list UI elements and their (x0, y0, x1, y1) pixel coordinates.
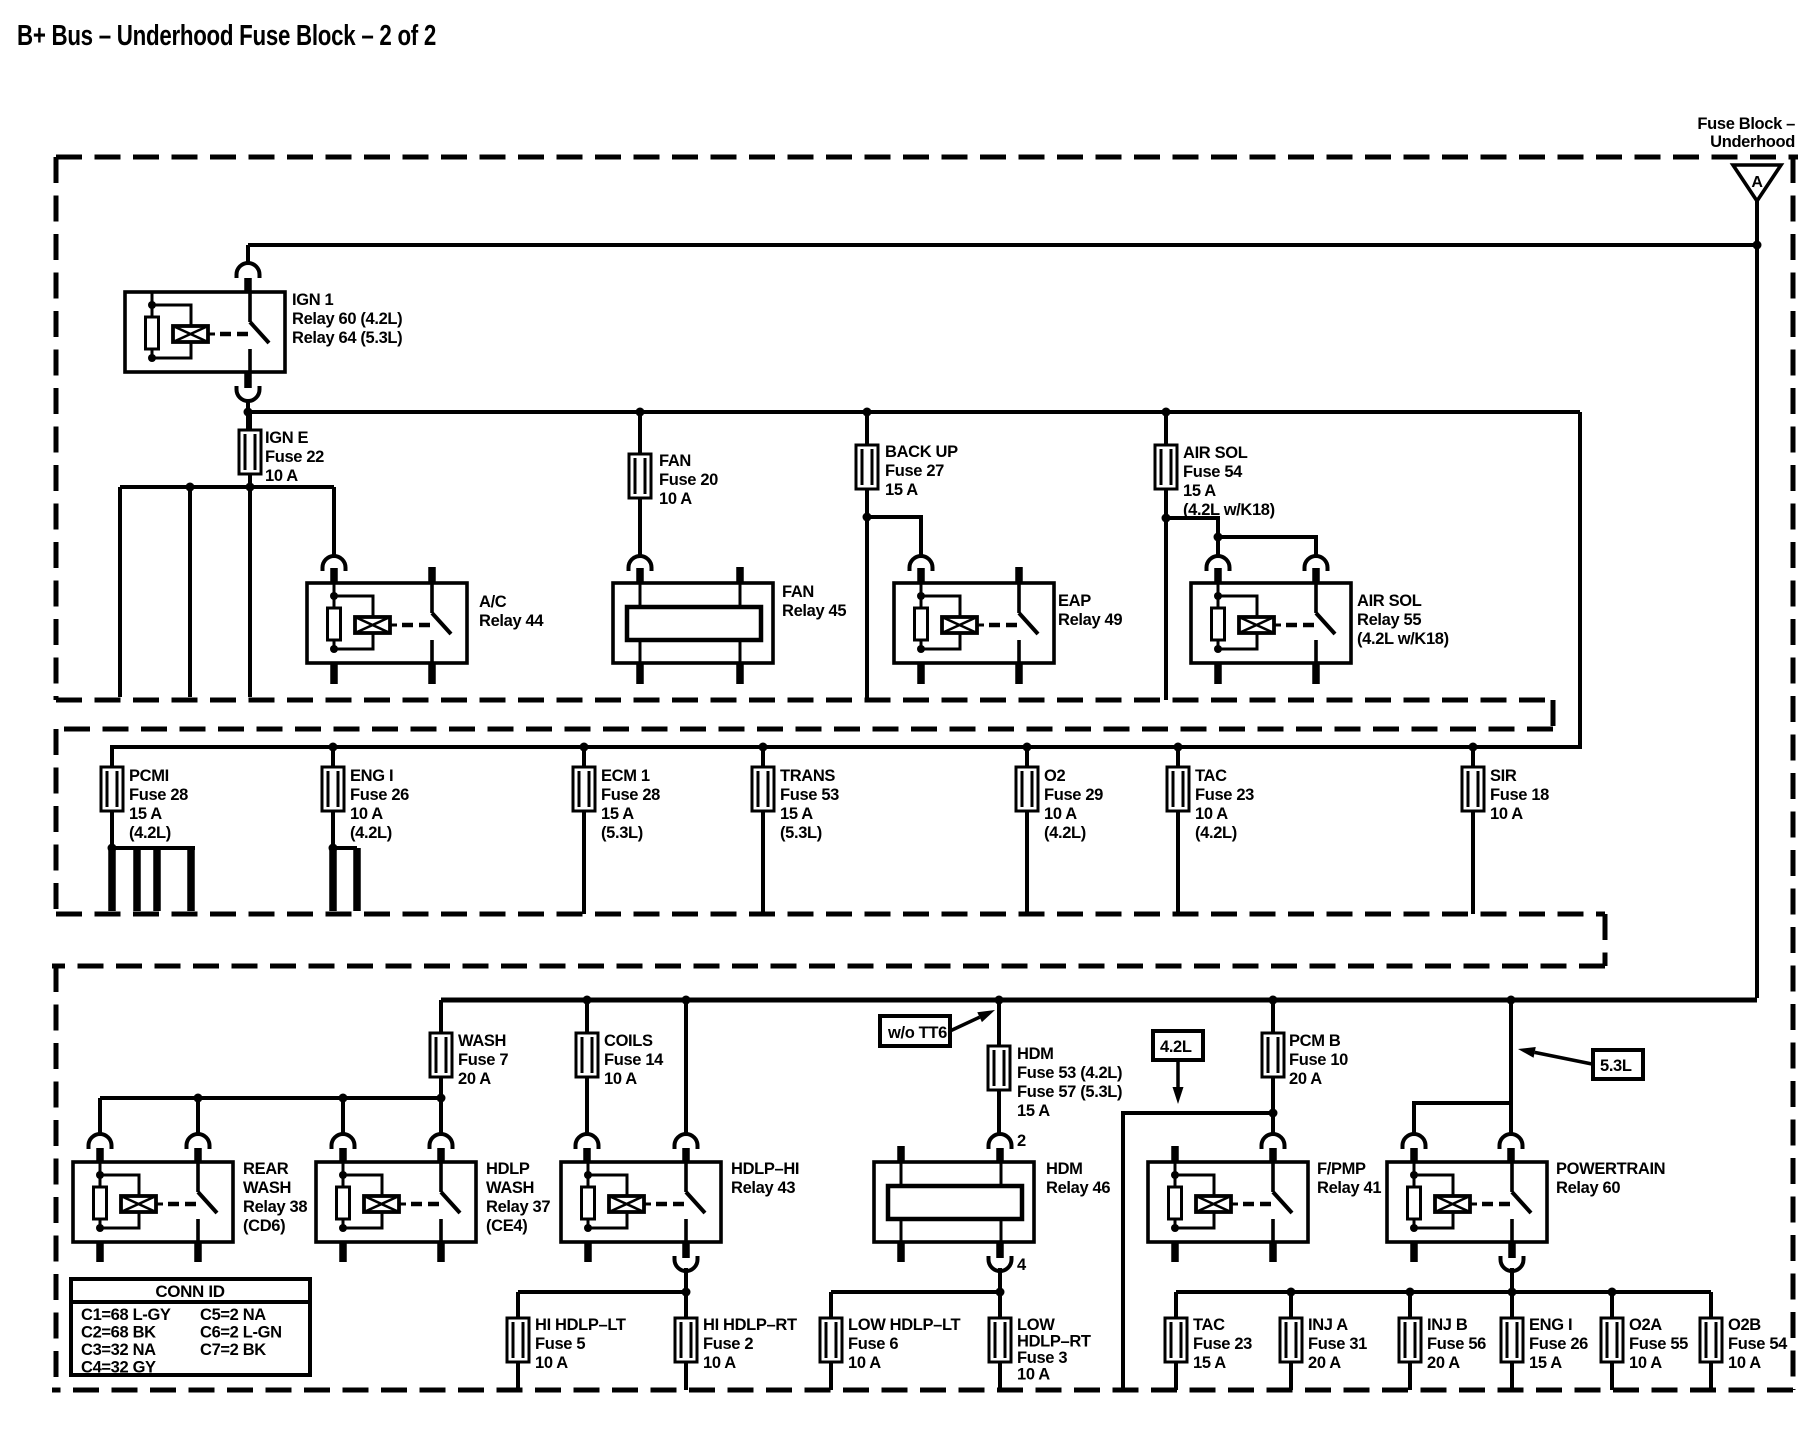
svg-text:C7=2 BK: C7=2 BK (200, 1341, 266, 1359)
svg-text:WASH: WASH (458, 1032, 506, 1050)
svg-text:HDM: HDM (1017, 1045, 1054, 1063)
svg-text:AIR SOL: AIR SOL (1357, 592, 1422, 610)
svg-text:20 A: 20 A (1427, 1354, 1460, 1372)
svg-text:FAN: FAN (782, 583, 814, 601)
svg-text:10 A: 10 A (1629, 1354, 1662, 1372)
svg-text:15 A: 15 A (1017, 1102, 1050, 1120)
svg-text:20 A: 20 A (1308, 1354, 1341, 1372)
svg-text:Fuse 7: Fuse 7 (458, 1051, 508, 1069)
svg-text:Fuse 29: Fuse 29 (1044, 786, 1103, 804)
svg-text:Relay 60 (4.2L): Relay 60 (4.2L) (292, 310, 402, 328)
svg-text:C2=68 BK: C2=68 BK (81, 1324, 156, 1342)
svg-text:TRANS: TRANS (780, 767, 835, 785)
svg-text:Fuse Block –: Fuse Block – (1697, 115, 1795, 133)
svg-text:Relay 38: Relay 38 (243, 1198, 307, 1216)
svg-text:WASH: WASH (486, 1179, 534, 1197)
svg-text:IGN 1: IGN 1 (292, 291, 334, 309)
svg-text:Fuse 14: Fuse 14 (604, 1051, 664, 1069)
svg-text:10 A: 10 A (1195, 805, 1228, 823)
svg-text:2: 2 (1017, 1132, 1026, 1150)
svg-text:Fuse 28: Fuse 28 (601, 786, 660, 804)
svg-text:HI HDLP–RT: HI HDLP–RT (703, 1316, 797, 1334)
svg-text:Relay 43: Relay 43 (731, 1179, 795, 1197)
svg-text:Relay 41: Relay 41 (1317, 1179, 1381, 1197)
svg-text:15 A: 15 A (601, 805, 634, 823)
svg-text:10 A: 10 A (1017, 1366, 1050, 1384)
svg-text:C3=32 NA: C3=32 NA (81, 1341, 156, 1359)
svg-text:Fuse 18: Fuse 18 (1490, 786, 1549, 804)
svg-text:4.2L: 4.2L (1160, 1038, 1192, 1056)
svg-text:(4.2L): (4.2L) (350, 824, 392, 842)
svg-text:BACK UP: BACK UP (885, 443, 958, 461)
svg-text:HI HDLP–LT: HI HDLP–LT (535, 1316, 626, 1334)
svg-text:Fuse 20: Fuse 20 (659, 471, 718, 489)
svg-text:INJ B: INJ B (1427, 1316, 1468, 1334)
svg-text:Fuse 26: Fuse 26 (350, 786, 409, 804)
svg-text:O2B: O2B (1728, 1316, 1761, 1334)
svg-text:15 A: 15 A (129, 805, 162, 823)
svg-text:Fuse 54: Fuse 54 (1728, 1335, 1788, 1353)
svg-text:A/C: A/C (479, 593, 507, 611)
svg-text:TAC: TAC (1195, 767, 1227, 785)
svg-text:(5.3L): (5.3L) (601, 824, 643, 842)
svg-text:(4.2L): (4.2L) (129, 824, 171, 842)
svg-text:Relay 44: Relay 44 (479, 612, 544, 630)
svg-text:15 A: 15 A (1183, 482, 1216, 500)
svg-text:10 A: 10 A (848, 1354, 881, 1372)
svg-text:COILS: COILS (604, 1032, 653, 1050)
svg-text:FAN: FAN (659, 452, 691, 470)
svg-text:POWERTRAIN: POWERTRAIN (1556, 1160, 1665, 1178)
svg-text:C4=32 GY: C4=32 GY (81, 1359, 156, 1377)
svg-text:Fuse 56: Fuse 56 (1427, 1335, 1486, 1353)
svg-text:INJ A: INJ A (1308, 1316, 1348, 1334)
svg-text:HDLP–RT: HDLP–RT (1017, 1333, 1091, 1351)
svg-text:F/PMP: F/PMP (1317, 1160, 1366, 1178)
svg-text:15 A: 15 A (885, 481, 918, 499)
svg-text:Fuse 5: Fuse 5 (535, 1335, 585, 1353)
svg-text:(4.2L): (4.2L) (1195, 824, 1237, 842)
svg-text:(4.2L w/K18): (4.2L w/K18) (1357, 630, 1449, 648)
svg-text:SIR: SIR (1490, 767, 1517, 785)
svg-text:REAR: REAR (243, 1160, 289, 1178)
svg-text:Fuse 22: Fuse 22 (265, 448, 324, 466)
svg-text:IGN E: IGN E (265, 429, 309, 447)
svg-text:Fuse 6: Fuse 6 (848, 1335, 898, 1353)
svg-text:O2A: O2A (1629, 1316, 1662, 1334)
svg-text:Underhood: Underhood (1710, 133, 1795, 151)
svg-text:WASH: WASH (243, 1179, 291, 1197)
svg-text:B+ Bus – Underhood Fuse Block: B+ Bus – Underhood Fuse Block – 2 of 2 (17, 20, 436, 52)
svg-text:AIR SOL: AIR SOL (1183, 444, 1248, 462)
svg-text:Fuse 54: Fuse 54 (1183, 463, 1243, 481)
svg-text:10 A: 10 A (350, 805, 383, 823)
svg-text:10 A: 10 A (1490, 805, 1523, 823)
svg-text:20 A: 20 A (458, 1070, 491, 1088)
svg-text:TAC: TAC (1193, 1316, 1225, 1334)
svg-text:C1=68 L-GY: C1=68 L-GY (81, 1306, 171, 1324)
svg-text:LOW: LOW (1017, 1316, 1055, 1334)
svg-text:(CE4): (CE4) (486, 1217, 527, 1235)
svg-text:CONN ID: CONN ID (155, 1282, 224, 1301)
svg-text:15 A: 15 A (1529, 1354, 1562, 1372)
svg-text:(4.2L): (4.2L) (1044, 824, 1086, 842)
svg-text:Fuse 23: Fuse 23 (1193, 1335, 1252, 1353)
svg-text:ECM 1: ECM 1 (601, 767, 650, 785)
svg-text:15 A: 15 A (780, 805, 813, 823)
svg-text:Fuse 27: Fuse 27 (885, 462, 944, 480)
svg-text:Fuse 2: Fuse 2 (703, 1335, 753, 1353)
svg-text:HDM: HDM (1046, 1160, 1083, 1178)
svg-text:20 A: 20 A (1289, 1070, 1322, 1088)
svg-text:(CD6): (CD6) (243, 1217, 285, 1235)
svg-text:Fuse 55: Fuse 55 (1629, 1335, 1688, 1353)
svg-text:10 A: 10 A (1044, 805, 1077, 823)
svg-text:10 A: 10 A (604, 1070, 637, 1088)
svg-text:Relay 49: Relay 49 (1058, 611, 1122, 629)
svg-text:Relay 37: Relay 37 (486, 1198, 550, 1216)
svg-text:HDLP–HI: HDLP–HI (731, 1160, 799, 1178)
svg-text:Fuse 3: Fuse 3 (1017, 1349, 1067, 1367)
svg-text:(5.3L): (5.3L) (780, 824, 822, 842)
svg-text:PCM B: PCM B (1289, 1032, 1341, 1050)
svg-text:ENG I: ENG I (350, 767, 393, 785)
svg-text:10 A: 10 A (659, 490, 692, 508)
svg-text:Fuse 31: Fuse 31 (1308, 1335, 1367, 1353)
svg-text:O2: O2 (1044, 767, 1065, 785)
svg-text:w/o TT6: w/o TT6 (887, 1024, 947, 1042)
svg-text:Fuse 23: Fuse 23 (1195, 786, 1254, 804)
svg-text:10 A: 10 A (1728, 1354, 1761, 1372)
svg-text:Fuse 57 (5.3L): Fuse 57 (5.3L) (1017, 1083, 1122, 1101)
svg-text:10 A: 10 A (703, 1354, 736, 1372)
svg-text:HDLP: HDLP (486, 1160, 530, 1178)
svg-text:Fuse 53: Fuse 53 (780, 786, 839, 804)
svg-text:A: A (1751, 174, 1763, 191)
svg-text:Fuse 10: Fuse 10 (1289, 1051, 1348, 1069)
svg-text:10 A: 10 A (535, 1354, 568, 1372)
svg-text:ENG I: ENG I (1529, 1316, 1572, 1334)
svg-text:4: 4 (1017, 1256, 1027, 1274)
svg-text:EAP: EAP (1058, 592, 1091, 610)
svg-text:Relay 64 (5.3L): Relay 64 (5.3L) (292, 329, 402, 347)
svg-text:Relay 45: Relay 45 (782, 602, 846, 620)
svg-text:Relay 46: Relay 46 (1046, 1179, 1110, 1197)
svg-text:10 A: 10 A (265, 467, 298, 485)
svg-text:5.3L: 5.3L (1600, 1057, 1632, 1075)
svg-text:Relay 60: Relay 60 (1556, 1179, 1620, 1197)
svg-text:Relay 55: Relay 55 (1357, 611, 1421, 629)
svg-text:Fuse 26: Fuse 26 (1529, 1335, 1588, 1353)
svg-text:C5=2 NA: C5=2 NA (200, 1306, 266, 1324)
svg-text:PCMI: PCMI (129, 767, 169, 785)
svg-text:LOW HDLP–LT: LOW HDLP–LT (848, 1316, 961, 1334)
svg-text:Fuse 53 (4.2L): Fuse 53 (4.2L) (1017, 1064, 1122, 1082)
svg-text:15 A: 15 A (1193, 1354, 1226, 1372)
svg-text:C6=2 L-GN: C6=2 L-GN (200, 1324, 282, 1342)
svg-text:Fuse 28: Fuse 28 (129, 786, 188, 804)
